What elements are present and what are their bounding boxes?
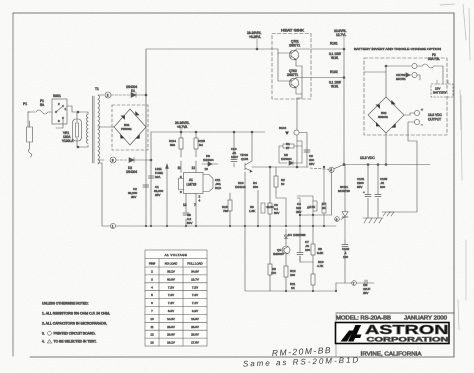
output terminal +	[404, 108, 423, 116]
svg-text:35.1V: 35.1V	[167, 270, 175, 274]
svg-text:1K: 1K	[291, 286, 295, 290]
vertical connectors midband	[242, 167, 244, 226]
svg-text:7.2V: 7.2V	[192, 285, 198, 289]
node 2 circled on rail	[329, 167, 334, 172]
svg-text:16.8V: 16.8V	[191, 317, 199, 321]
resistor R8 5.6K	[311, 226, 323, 262]
svg-text:7.3V: 7.3V	[192, 293, 198, 297]
svg-text:TO BE SELECTED IN TEST.: TO BE SELECTED IN TEST.	[54, 340, 97, 344]
bridge BR2 SB3001	[364, 72, 404, 133]
wire from minus terminal down	[388, 131, 417, 212]
svg-text:2N3771: 2N3771	[287, 73, 298, 77]
svg-text:BATTERY: BATTERY	[433, 91, 447, 95]
svg-text:4.7K: 4.7K	[317, 264, 323, 268]
svg-text:12: 12	[150, 333, 154, 337]
svg-text:30A F.B.: 30A F.B.	[428, 57, 440, 61]
node	[77, 111, 79, 113]
wire fuse to switch	[48, 111, 52, 113]
svg-text:3: 3	[112, 158, 114, 162]
svg-text:25V: 25V	[155, 193, 160, 197]
collector bus down right	[343, 48, 345, 50]
node 3 (circled)	[110, 157, 116, 163]
svg-text:12.7VL: 12.7VL	[336, 33, 346, 37]
transistor Q1 2N5686	[273, 243, 290, 262]
svg-text:12: 12	[192, 166, 196, 170]
transistor Q702 2N3771	[278, 53, 310, 98]
svg-text:13.7V: 13.7V	[191, 277, 199, 281]
label 13.8 VDC OUTPUT	[428, 113, 443, 122]
midband: resistor R2 10	[274, 167, 285, 198]
resistor R18	[222, 193, 232, 226]
diode CR702 MR751	[386, 66, 420, 81]
margin smudges	[440, 4, 470, 330]
raw DC rail	[152, 131, 334, 133]
svg-text:D1: D1	[131, 89, 135, 93]
svg-text:1. ALL RESISTORS 5% OHM C.F. I: 1. ALL RESISTORS 5% OHM C.F. IN OHM.	[42, 312, 110, 316]
svg-text:7.1V: 7.1V	[192, 301, 198, 305]
wire: top of BR2 to F2 row	[386, 66, 411, 72]
Astron logo box	[336, 323, 450, 344]
resistor R4 500	[253, 181, 258, 189]
svg-text:A1: A1	[189, 178, 193, 182]
pin 5,6 bracket	[179, 179, 184, 190]
capacitor C11	[215, 178, 222, 190]
svg-text:25V: 25V	[363, 291, 368, 295]
transformer T1	[86, 87, 113, 226]
wire BR1 + output to vertical bus	[145, 49, 147, 127]
node 3 circled	[324, 217, 339, 226]
svg-text:PRINTED CIRCUIT BOARD.: PRINTED CIRCUIT BOARD.	[54, 332, 96, 336]
svg-text:50V: 50V	[187, 221, 192, 225]
stylized A logo	[341, 325, 362, 342]
svg-text:W.W.: W.W.	[331, 85, 339, 89]
capacitor C4 180 25V	[296, 198, 301, 226]
capacitor C3 0.1	[274, 203, 285, 215]
svg-text:HEAT SINK: HEAT SINK	[281, 29, 305, 33]
chassis ground	[363, 218, 383, 223]
svg-text:25V: 25V	[296, 210, 301, 214]
resistor R1 27	[279, 136, 302, 150]
capacitor C1 33,000uF	[148, 176, 163, 197]
svg-text:29.0V: 29.0V	[167, 325, 175, 329]
svg-text:+8.7VA: +8.7VA	[177, 125, 188, 129]
notes	[42, 302, 110, 344]
output terminal -	[408, 115, 423, 131]
resistor R7 2K	[322, 167, 327, 226]
svg-text:FULL LOAD: FULL LOAD	[187, 262, 202, 266]
svg-text:13: 13	[150, 341, 154, 345]
svg-text:60.9V: 60.9V	[167, 277, 175, 281]
title block	[336, 313, 454, 357]
svg-text:5A: 5A	[40, 103, 45, 107]
resistor R7	[307, 201, 317, 211]
diode D5 1N4004	[279, 141, 302, 167]
svg-text:13.8 VDC: 13.8 VDC	[428, 113, 443, 117]
svg-text:1N4004: 1N4004	[126, 170, 137, 174]
svg-text:R104: R104	[279, 126, 287, 130]
svg-text:3.: 3.	[42, 332, 45, 336]
svg-text:35V: 35V	[357, 185, 362, 189]
svg-text:W.W.: W.W.	[331, 56, 339, 60]
svg-text:100: 100	[343, 255, 348, 259]
svg-text:△R7K: △R7K	[307, 205, 315, 209]
capacitor C8	[183, 213, 192, 225]
svg-text:3.3V: 3.3V	[192, 309, 198, 313]
capacitor C6	[304, 150, 310, 152]
capacitor C102	[342, 240, 350, 283]
svg-text:50V: 50V	[274, 211, 279, 215]
svg-text:BATTERY INVERT AND TRICKLE CHA: BATTERY INVERT AND TRICKLE CHARGE OPTION	[354, 47, 441, 51]
resistor R115	[192, 132, 206, 173]
A1 voltage table	[145, 250, 207, 346]
node 1 circled on ground rail	[110, 223, 115, 228]
sense line with arrow	[166, 164, 169, 226]
transistor Q101 TIP29	[240, 131, 253, 172]
svg-text:R1D: R1D	[215, 186, 222, 190]
svg-text:P1: P1	[23, 102, 27, 106]
svg-text:1: 1	[112, 224, 114, 228]
lower band resistors R3 1.8K	[249, 193, 275, 226]
diode D2 1N4004	[116, 158, 152, 174]
svg-text:7.3V: 7.3V	[168, 293, 174, 297]
capacitor C9 22uF	[336, 280, 374, 295]
label: line fuse	[155, 167, 163, 179]
svg-text:4.: 4.	[42, 340, 45, 344]
svg-text:+: +	[421, 108, 423, 112]
wire switch to varistor node	[67, 106, 78, 112]
svg-text:8.0V: 8.0V	[168, 309, 174, 313]
svg-text:LM723: LM723	[187, 183, 197, 187]
svg-text:29.8V: 29.8V	[167, 333, 175, 337]
diode D10 1N4148	[235, 172, 252, 192]
node A with select triangle	[279, 126, 314, 167]
svg-text:V130LA: V130LA	[62, 139, 74, 143]
SCR1 MCR720	[338, 165, 350, 241]
node circled at C9	[352, 281, 357, 286]
wire BR2 bottom to output rail	[385, 133, 387, 165]
diode D8 1N4004	[196, 154, 220, 166]
transistor Q701 2N3771	[272, 40, 310, 62]
svg-text:S801: S801	[53, 94, 61, 98]
svg-text:1N4004: 1N4004	[281, 157, 292, 161]
svg-text:16.1V: 16.1V	[167, 341, 175, 345]
svg-text:1.8K: 1.8K	[249, 209, 255, 213]
svg-text:100: 100	[290, 273, 295, 277]
resistor R11 1K	[286, 262, 300, 291]
svg-text:2N5060: 2N5060	[273, 252, 284, 256]
resistor R6 470	[268, 226, 276, 291]
svg-text:1N4004: 1N4004	[203, 158, 214, 162]
center tap down	[101, 163, 103, 226]
core	[92, 96, 94, 163]
svg-text:Q101: Q101	[241, 157, 249, 161]
svg-text:13.8 VDC: 13.8 VDC	[360, 156, 375, 160]
resistor R10 4.7K	[317, 260, 324, 268]
svg-text:SB3001: SB3001	[378, 115, 388, 119]
svg-text:28.0V: 28.0V	[191, 333, 199, 337]
svg-text:2: 2	[330, 168, 332, 172]
svg-text:T1: T1	[95, 87, 99, 91]
primary winding	[87, 112, 89, 147]
svg-text:20A: 20A	[155, 175, 160, 179]
battery option dashed box	[364, 58, 447, 135]
svg-text:2N3771: 2N3771	[289, 44, 300, 48]
ground rail	[102, 225, 336, 227]
svg-text:ASTRON: ASTRON	[365, 323, 449, 337]
svg-text:MR751: MR751	[396, 77, 406, 81]
mid rail pickoff	[299, 214, 301, 216]
svg-text:MODEL: RS-20A-BB: MODEL: RS-20A-BB	[336, 315, 392, 321]
svg-text:7.2V: 7.2V	[168, 285, 174, 289]
12V battery (dashed box)	[431, 80, 453, 97]
varistor VR1	[62, 112, 82, 147]
svg-text:10: 10	[150, 317, 154, 321]
wire BR1 left input	[113, 126, 114, 128]
svg-text:R101: R101	[330, 42, 338, 46]
resistor R101 0.1 10W	[311, 42, 344, 61]
heat sink (dashed box)	[272, 29, 311, 100]
svg-text:PIN#: PIN#	[149, 262, 156, 266]
diode D1 1N4004	[111, 85, 147, 97]
svg-text:+8.25VL: +8.25VL	[249, 35, 261, 39]
secondary taps	[98, 94, 104, 96]
emitter lead out of heatsink down	[296, 98, 298, 130]
zener D4 1N5256B	[284, 226, 306, 243]
svg-text:PW0031: PW0031	[121, 127, 132, 131]
svg-text:100V: 100V	[231, 155, 238, 159]
handwritten notes	[243, 345, 361, 369]
resistor R114	[169, 132, 183, 173]
svg-text:D4: D4	[288, 233, 292, 237]
svg-text:11: 11	[150, 325, 153, 329]
voltage regulator A1 LM723	[179, 167, 227, 226]
svg-text:UNLESS OTHERWISE NOTED:: UNLESS OTHERWISE NOTED:	[42, 302, 89, 306]
svg-text:CORPORATION: CORPORATION	[367, 337, 449, 344]
svg-text:17.8V: 17.8V	[191, 341, 199, 345]
svg-text:11: 11	[178, 166, 182, 170]
svg-text:A1 VOLTAGE: A1 VOLTAGE	[165, 253, 188, 257]
svg-text:JANUARY 2000: JANUARY 2000	[404, 315, 447, 321]
resistor R12 100	[284, 262, 296, 280]
wire: AC line from plug to fuse	[28, 111, 35, 113]
svg-text:R4: R4	[199, 143, 203, 147]
svg-text:10: 10	[281, 182, 285, 186]
svg-text:2K: 2K	[322, 206, 326, 210]
svg-text:28.0V: 28.0V	[191, 325, 199, 329]
svg-text:34.3V: 34.3V	[191, 270, 199, 274]
output rail 13.8VDC	[252, 166, 430, 168]
label 10.8VRL	[334, 29, 347, 48]
svg-text:2: 2	[107, 93, 109, 97]
capacitor C105	[375, 165, 388, 219]
svg-text:7.2V: 7.2V	[168, 301, 174, 305]
secondary winding	[98, 95, 100, 164]
svg-text:IRVINE, CALIFORNIA: IRVINE, CALIFORNIA	[361, 352, 422, 358]
capacitor C2 33,000uF	[128, 185, 149, 199]
svg-text:1N5256B: 1N5256B	[293, 233, 306, 237]
node 2 (circled)	[105, 92, 111, 98]
svg-text:R102: R102	[330, 70, 338, 74]
svg-text:+: +	[363, 190, 365, 194]
svg-text:25V: 25V	[131, 195, 136, 199]
svg-text:1N4148: 1N4148	[235, 185, 246, 189]
resistor R102 0.1 10W	[311, 70, 344, 89]
fuse F2 30A	[422, 53, 443, 84]
svg-text:MCR720: MCR720	[338, 189, 350, 193]
svg-text:533: 533	[170, 143, 175, 147]
svg-text:NO LOAD: NO LOAD	[165, 262, 178, 266]
svg-text:2. ALL CAPACITORS IN MICROFARA: 2. ALL CAPACITORS IN MICROFARADS.	[42, 322, 107, 326]
chassis ground at output return	[382, 212, 394, 216]
terminal circles to F2	[412, 63, 417, 68]
svg-text:−: −	[421, 123, 423, 127]
svg-text:5.6K: 5.6K	[317, 251, 323, 255]
diamond	[114, 109, 146, 145]
capacitor C7	[297, 226, 310, 262]
capacitor C10	[231, 132, 238, 167]
wire varistor to primary	[78, 111, 88, 113]
subcircuit wires	[300, 256, 313, 291]
switch S801	[52, 94, 67, 124]
top rail wire	[146, 48, 272, 50]
svg-text:14.3V: 14.3V	[167, 317, 175, 321]
svg-text:736: 736	[223, 209, 228, 213]
bridge rectifier BR1 (dashed box)	[112, 105, 148, 150]
svg-text:100: 100	[380, 185, 385, 189]
diodes (filled triangles)	[121, 116, 125, 120]
label 23-26VRL	[247, 31, 262, 48]
wire BR1 - / second bus	[150, 132, 152, 226]
capacitor C101 2200 35V	[357, 165, 371, 219]
plug P1	[23, 102, 33, 157]
svg-text:15V: 15V	[309, 162, 314, 166]
svg-text:100: 100	[305, 248, 310, 252]
svg-text:OUTPUT: OUTPUT	[428, 118, 441, 122]
svg-text:10: 10	[205, 167, 209, 171]
label 26-26VRL	[175, 121, 190, 132]
fuse F1 5A	[36, 99, 48, 114]
subcircuit bottom rail	[270, 290, 354, 292]
svg-text:500: 500	[253, 185, 258, 189]
